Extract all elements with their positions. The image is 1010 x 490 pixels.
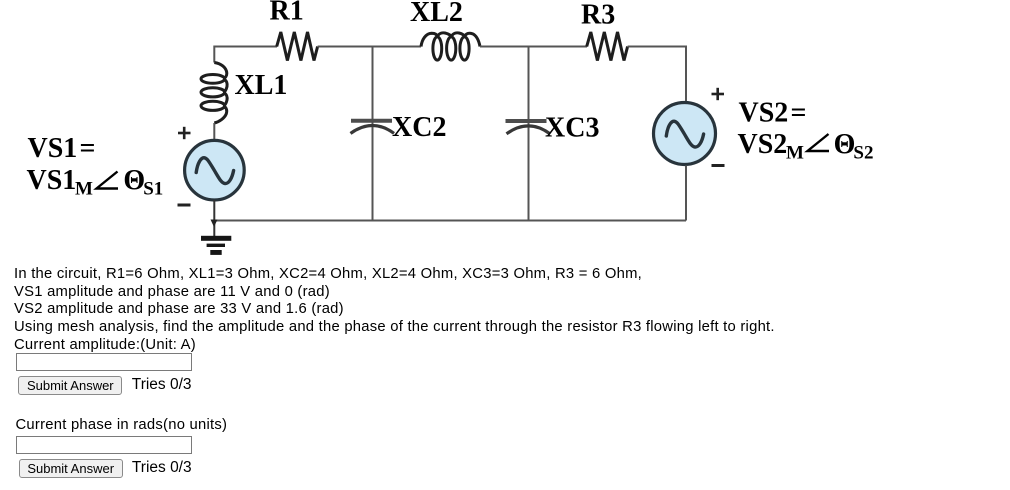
- svg-text:XC2: XC2: [392, 112, 446, 143]
- resistor R3: [587, 32, 628, 61]
- svg-text:R3: R3: [581, 0, 615, 31]
- svg-text:XL2: XL2: [410, 0, 463, 28]
- minus sign VS2: [712, 164, 725, 167]
- junction arrow at ground: [211, 220, 218, 228]
- capacitor XC3 vertical wire: [528, 47, 530, 221]
- capacitor XC2: [351, 121, 395, 134]
- capacitor XC2 vertical wire: [372, 47, 374, 221]
- svg-text:VS1: VS1: [27, 165, 77, 196]
- voltage source VS2: [654, 103, 716, 165]
- svg-text:VS2: VS2: [739, 98, 789, 129]
- wire top middle-right (XL2 to R3, node B): [480, 46, 587, 48]
- label VS2 equation line 2: [738, 129, 874, 164]
- svg-text:VS1: VS1: [28, 133, 78, 164]
- question text block: [14, 266, 775, 355]
- inductor XL2: [421, 33, 480, 60]
- submit button 2: [19, 459, 123, 478]
- svg-text:Θ: Θ: [123, 165, 145, 196]
- voltage source VS1: [185, 140, 245, 200]
- wire top middle-left (R1 to XL2, node A): [318, 46, 421, 48]
- wire VS2 to bottom: [685, 166, 687, 221]
- question text 2: [16, 417, 228, 435]
- sine wave VS1: [196, 158, 233, 184]
- svg-text:M: M: [75, 179, 93, 200]
- minus sign VS1: [178, 204, 191, 207]
- capacitor XC3: [506, 121, 551, 134]
- svg-text:M: M: [786, 143, 804, 164]
- plus sign VS2: [712, 88, 725, 100]
- submit button 1: [18, 376, 122, 395]
- resistor R1: [277, 32, 318, 61]
- answer input 1: [16, 353, 192, 371]
- wire bottom horizontal: [214, 220, 686, 222]
- svg-text:S2: S2: [853, 143, 873, 164]
- svg-text:XC3: XC3: [545, 113, 599, 144]
- svg-text:=: =: [80, 133, 96, 164]
- svg-text:Θ: Θ: [834, 129, 856, 160]
- svg-text:S1: S1: [143, 179, 163, 200]
- svg-text:=: =: [791, 98, 807, 129]
- tries label 1: [132, 376, 192, 394]
- angle symbol VS2: [808, 134, 830, 151]
- ground: [201, 236, 231, 255]
- sine wave VS2: [666, 121, 703, 147]
- label VS2 equation line 1: [739, 98, 807, 129]
- inductor XL1: [201, 63, 227, 124]
- wire VS1 to ground: [213, 200, 215, 236]
- plus sign VS1: [178, 127, 191, 139]
- svg-text:XL1: XL1: [235, 70, 288, 101]
- wire top-left horizontal (node from VS1+ to R1): [214, 46, 277, 48]
- svg-text:VS2: VS2: [738, 129, 788, 160]
- wire left vertical top (node to XL1): [213, 46, 215, 63]
- answer input 2: [16, 436, 192, 454]
- wire top-right horizontal (R3 to VS2): [628, 47, 686, 103]
- label VS1 equation line 1: [28, 133, 96, 164]
- label VS1 equation line 2: [27, 165, 164, 200]
- tries label 2: [132, 459, 192, 477]
- wire XL1 to VS1: [213, 123, 215, 141]
- angle symbol VS1: [97, 172, 119, 189]
- svg-text:R1: R1: [270, 0, 304, 27]
